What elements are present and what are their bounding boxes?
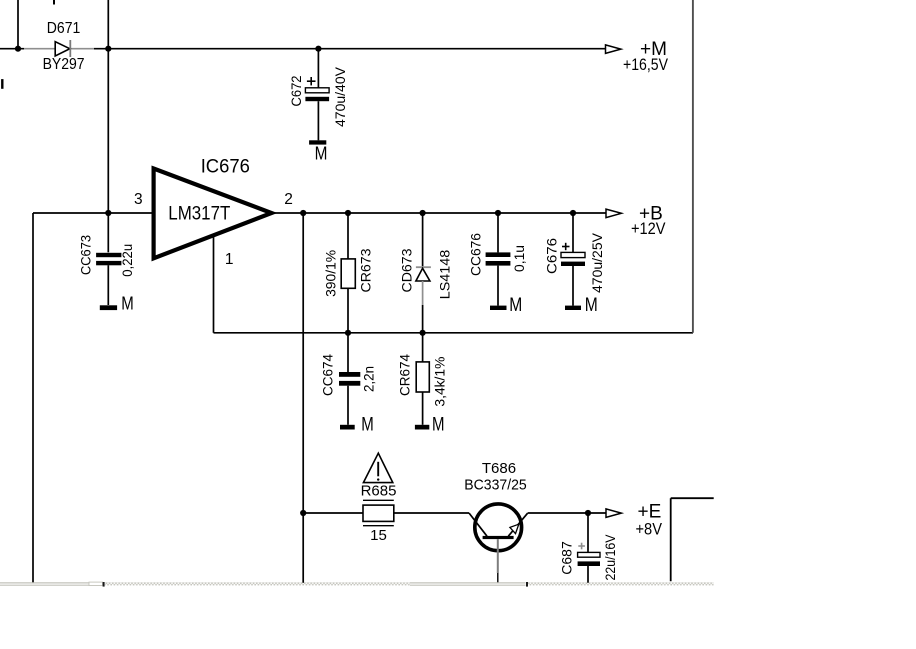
ground bar CC673 bbox=[100, 305, 117, 310]
solid grey segment middle bbox=[410, 582, 526, 584]
svg-text:IC676: IC676 bbox=[201, 157, 250, 178]
ground bar CR674 bbox=[415, 425, 429, 430]
svg-text:C687: C687 bbox=[559, 541, 575, 575]
notch bbox=[89, 582, 103, 585]
capacitor C676 bbox=[561, 213, 585, 306]
wire output pin2 rail bbox=[272, 212, 607, 214]
node junction D671 cathode / rail bbox=[105, 46, 111, 52]
wire emitter to +E bbox=[528, 512, 606, 514]
svg-text:2: 2 bbox=[284, 191, 293, 208]
node junction CR674 top bbox=[420, 330, 426, 336]
wire stub top-left vertical bbox=[17, 0, 19, 49]
node junction C676 top bbox=[570, 210, 576, 216]
svg-text:CR674: CR674 bbox=[397, 354, 413, 396]
node junction C672 top bbox=[315, 46, 321, 52]
resistor CR674 bbox=[416, 333, 429, 425]
svg-text:0,1u: 0,1u bbox=[511, 245, 527, 272]
wire feedback bottom rail bbox=[214, 332, 694, 334]
svg-text:M: M bbox=[315, 144, 328, 164]
tick right bbox=[526, 582, 528, 587]
resistor CR673 bbox=[341, 213, 355, 333]
svg-text:M: M bbox=[432, 414, 445, 435]
svg-text:D671: D671 bbox=[47, 20, 81, 37]
capacitor C672 bbox=[305, 49, 329, 141]
ground bar C676 bbox=[565, 306, 581, 310]
svg-text:390/1%: 390/1% bbox=[322, 250, 338, 297]
capacitor CC673 bbox=[96, 213, 121, 305]
right block corner bbox=[671, 498, 714, 581]
svg-text:470u/40V: 470u/40V bbox=[332, 66, 348, 127]
svg-text:C676: C676 bbox=[544, 238, 560, 274]
tick left bbox=[103, 582, 105, 587]
wire tick top at x=54 bbox=[53, 0, 55, 5]
svg-text:M: M bbox=[361, 414, 374, 435]
svg-text:M: M bbox=[121, 293, 134, 313]
module boundary band bbox=[0, 582, 714, 587]
svg-text:BC337/25: BC337/25 bbox=[464, 476, 526, 493]
plus sign C672 bbox=[307, 77, 316, 85]
capacitor C687 bbox=[578, 513, 600, 583]
wire top rail grey segment through diode bbox=[24, 48, 94, 50]
capacitor CC676 bbox=[486, 213, 511, 306]
svg-text:3,4k/1%: 3,4k/1% bbox=[432, 357, 448, 407]
wire vertical from top at x=108 bbox=[107, 0, 109, 213]
node junction CR673 top bbox=[345, 210, 351, 216]
svg-text:CR673: CR673 bbox=[358, 248, 374, 292]
node junction CC674 top bbox=[345, 330, 351, 336]
plus sign C676 bbox=[562, 243, 570, 250]
svg-text:C672: C672 bbox=[288, 75, 304, 106]
svg-text:LM317T: LM317T bbox=[168, 204, 230, 225]
svg-text:3: 3 bbox=[134, 191, 143, 208]
wire feedback left vertical bbox=[32, 213, 34, 583]
dotted segment left bbox=[105, 582, 410, 585]
svg-text:1: 1 bbox=[225, 251, 234, 268]
+M arrow bbox=[606, 45, 621, 54]
resistor R685 bbox=[303, 500, 469, 525]
ground bar C672 bbox=[309, 140, 326, 144]
wire box right edge bbox=[692, 0, 694, 333]
+E arrow bbox=[606, 509, 621, 518]
plus sign C687 bbox=[578, 543, 585, 550]
solid grey segment left bbox=[0, 582, 89, 584]
partial glyph at left edge bbox=[1, 79, 3, 89]
transistor T686 bbox=[469, 504, 528, 584]
svg-text:22u/16V: 22u/16V bbox=[602, 534, 618, 581]
wire top rail to +M arrow bbox=[94, 48, 606, 50]
wire vertical from +B node down to band bbox=[302, 213, 304, 583]
ground bar CC676 bbox=[490, 306, 507, 310]
svg-text:LS4148: LS4148 bbox=[437, 250, 453, 300]
warning triangle bbox=[363, 453, 392, 482]
svg-text:BY297: BY297 bbox=[43, 56, 85, 73]
svg-text:+16,5V: +16,5V bbox=[623, 56, 668, 74]
svg-text:T686: T686 bbox=[482, 460, 516, 477]
svg-text:M: M bbox=[585, 295, 598, 316]
node junction left of D671 bbox=[15, 46, 21, 52]
diode CD673 bbox=[416, 213, 431, 333]
op-amp style regulator IC676 bbox=[154, 169, 272, 259]
node junction C687 top bbox=[585, 510, 591, 516]
wire top rail left segment bbox=[0, 48, 24, 50]
svg-text:CC674: CC674 bbox=[320, 354, 336, 396]
+B arrow bbox=[606, 209, 621, 218]
ground bar CC674 bbox=[340, 425, 355, 430]
node junction CD673 top bbox=[420, 210, 426, 216]
svg-text:0,22u: 0,22u bbox=[119, 244, 135, 277]
svg-text:+8V: +8V bbox=[636, 520, 663, 538]
svg-text:CD673: CD673 bbox=[399, 248, 415, 292]
diode D671 bbox=[55, 40, 70, 57]
svg-text:15: 15 bbox=[370, 527, 387, 544]
node junction output bbox=[300, 210, 306, 216]
wire input to IC676 pin3 bbox=[33, 212, 154, 214]
wire pin1 vertical bbox=[213, 236, 215, 333]
svg-text:CC673: CC673 bbox=[78, 235, 94, 275]
dotted segment right bbox=[528, 582, 714, 585]
node junction CC676 top bbox=[495, 210, 501, 216]
svg-text:M: M bbox=[509, 295, 522, 316]
node junction pin3 input bbox=[105, 210, 111, 216]
svg-text:CC676: CC676 bbox=[468, 233, 484, 276]
capacitor CC674 bbox=[339, 333, 360, 425]
svg-text:R685: R685 bbox=[361, 483, 397, 500]
svg-text:+12V: +12V bbox=[631, 220, 666, 238]
svg-text:2,2n: 2,2n bbox=[361, 366, 377, 392]
svg-text:470u/25V: 470u/25V bbox=[589, 232, 605, 293]
node junction R685 branch bbox=[300, 510, 306, 516]
